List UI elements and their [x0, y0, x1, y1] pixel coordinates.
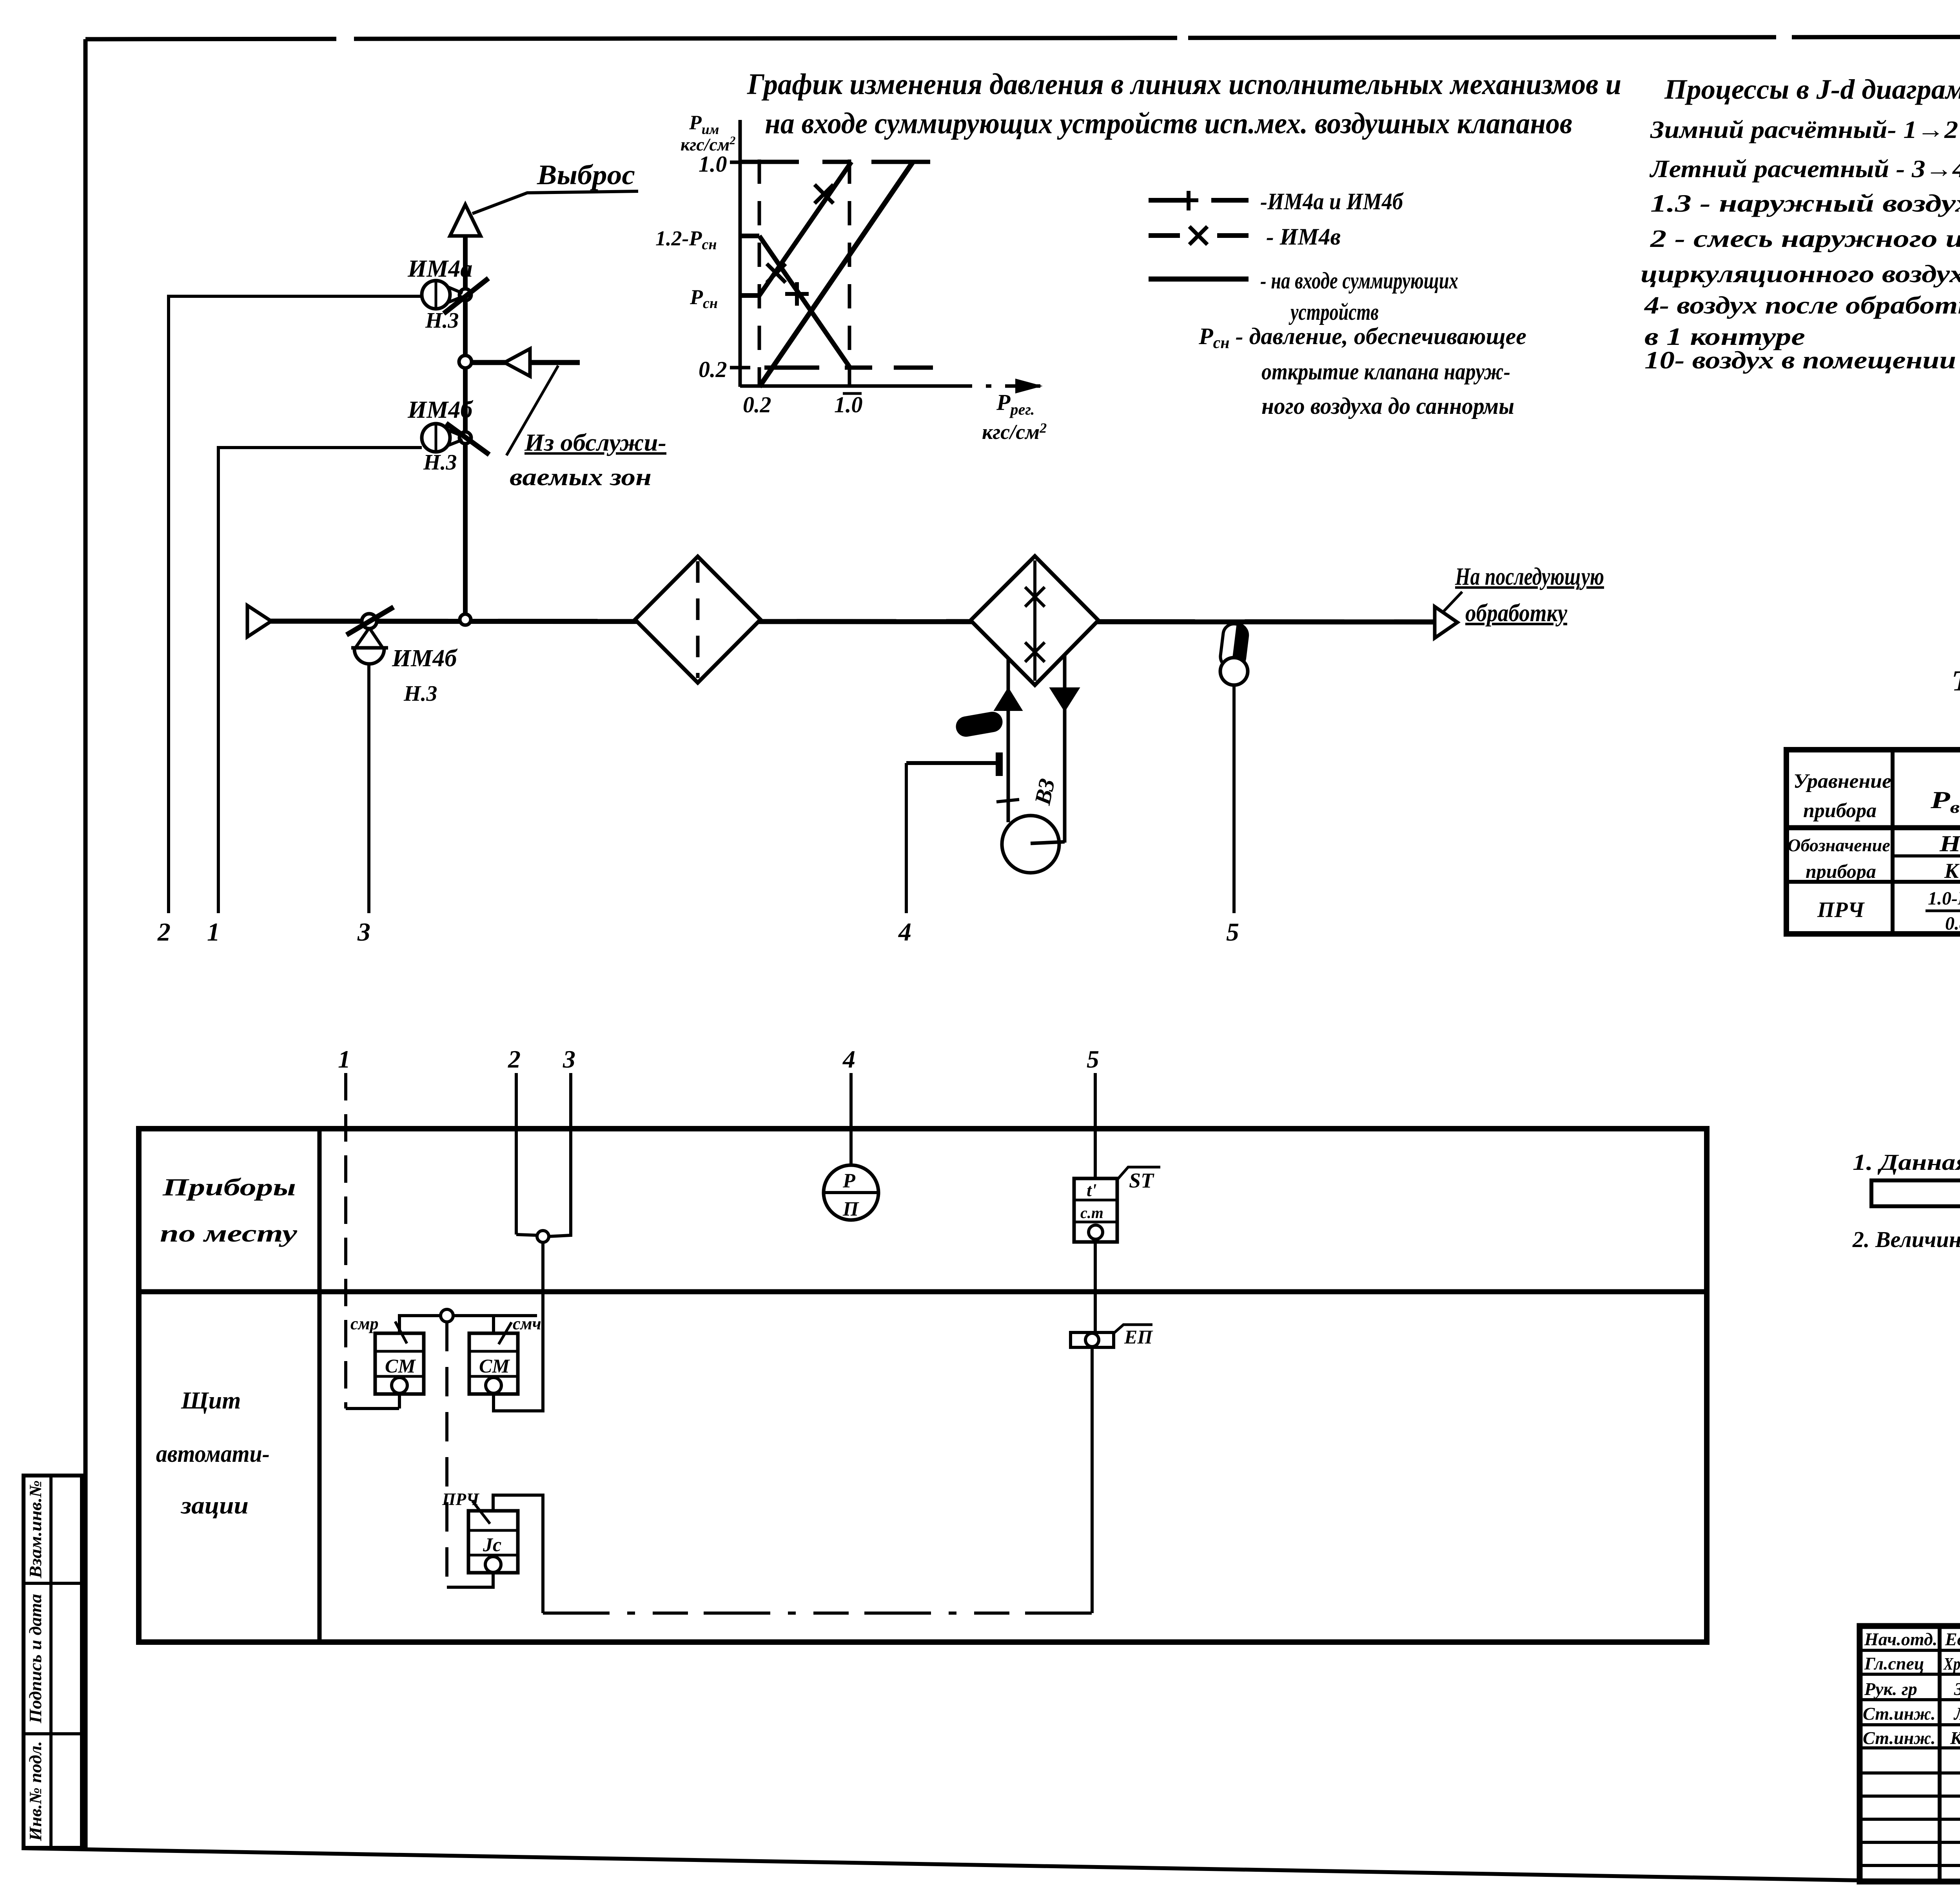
svg-text:Гл.спец: Гл.спец [1864, 1653, 1924, 1673]
svg-text:Рук. гр: Рук. гр [1864, 1679, 1917, 1699]
svg-text:1.0: 1.0 [699, 151, 727, 177]
curve ИМ4в ascending [759, 162, 851, 295]
svg-text:5: 5 [1087, 1045, 1099, 1073]
svg-text:4: 4 [842, 1045, 855, 1073]
duct valve cone down [356, 628, 382, 647]
sheet frame bottom border [22, 1848, 1960, 1883]
svg-text:Процессы в J-d диаграмме: Процессы в J-d диаграмме [1664, 74, 1960, 105]
sig table row lines [1860, 1650, 1960, 1865]
duct valve damper slash [347, 607, 394, 635]
svg-text:2. Величина давления Рсн(: 2. Величина давления Рсн(см. график опре… [1852, 1227, 1960, 1254]
instrument ST box [1074, 1178, 1117, 1242]
recirc inlet line [472, 360, 580, 365]
main duct line [263, 621, 1435, 622]
heat exchanger diamond [971, 556, 1098, 685]
svg-text:3: 3 [357, 918, 370, 946]
valve ИМ4б cone [448, 430, 463, 446]
wire ST to ЕП [1094, 1242, 1097, 1332]
svg-text:с.т: с.т [1080, 1204, 1103, 1222]
exhaust pipe vertical [463, 235, 468, 620]
svg-text:Летний расчетный - 3→4': Летний расчетный - 3→4' [1649, 155, 1960, 183]
svg-text:ИМ4б: ИМ4б [407, 397, 473, 423]
svg-text:2 - смесь наружного и ре-: 2 - смесь наружного и ре- [1650, 225, 1960, 252]
svg-text:Лазаренко: Лазаренко [1953, 1704, 1960, 1724]
label ПРЧ leader [472, 1501, 490, 1524]
svg-text:Р: Р [842, 1170, 856, 1192]
table ПРЧ outer box [1786, 750, 1960, 934]
svg-text:График изменения давления в ли: График изменения давления в линиях испол… [747, 68, 1621, 101]
y-axis [739, 120, 742, 387]
svg-text:ИМ4б: ИМ4б [392, 645, 457, 672]
curve ИМ4а,ИМ4б descending [759, 236, 849, 367]
svg-text:0.2: 0.2 [743, 392, 771, 417]
svg-text:Н.3: Н.3 [423, 450, 457, 475]
Рсн2 level stub [740, 293, 759, 298]
ЕП symbol [1071, 1332, 1114, 1347]
svg-text:обработку: обработку [1465, 599, 1568, 627]
svg-text:ВЗ: ВЗ [1029, 776, 1060, 807]
x marker 1 on ИМ4в [767, 264, 786, 283]
PROCESSTEXT [1641, 74, 1960, 374]
svg-text:СМ: СМ [479, 1355, 510, 1377]
sensor 5 circle [1220, 658, 1248, 685]
svg-text:смч: смч [513, 1314, 541, 1333]
ПРЧ row2 line [1786, 880, 1960, 884]
svg-text:Клименко: Клименко [1950, 1728, 1960, 1748]
svg-text:Ст.инж.: Ст.инж. [1863, 1704, 1936, 1724]
leader slash to Из обслуживаемых зон [506, 366, 558, 455]
x-axis with arrow [740, 384, 937, 388]
panel column divider [318, 1129, 322, 1642]
return water line down-arrow side [1063, 655, 1067, 843]
svg-text:циркуляционного воздуха: циркуляционного воздуха [1641, 260, 1960, 288]
pump circle [1002, 816, 1059, 873]
svg-text:прибора: прибора [1803, 799, 1877, 822]
svg-text:зации: зации [180, 1492, 249, 1519]
svg-text:0.8: 0.8 [1945, 913, 1960, 934]
title block outer [1860, 1626, 1960, 1882]
x marker 2 on ИМ4в [815, 185, 833, 203]
recirc junction node [459, 355, 472, 368]
valve ИМ4а cone [448, 287, 463, 303]
legend item 1 line [1149, 198, 1249, 203]
GRAPH [655, 68, 1621, 444]
label смч leader [499, 1322, 512, 1344]
wire from junction down to СМч [494, 1242, 543, 1411]
valve ИМ4б(нз) on duct: junction [362, 614, 377, 629]
recirc inlet arrow [505, 349, 530, 376]
svg-text:устройств: устройств [1289, 299, 1379, 325]
svg-text:на входе суммирующих устройств: на входе суммирующих устройств исп.мех. … [765, 107, 1572, 140]
PANEL [139, 1045, 1707, 1642]
sheet frame left border [83, 39, 88, 1849]
svg-text:4- воздух после обработки: 4- воздух после обработки [1644, 291, 1960, 319]
svg-text:10- воздух в помещении: 10- воздух в помещении [1644, 346, 1956, 374]
svg-text:СМ: СМ [385, 1355, 416, 1377]
СМр top stub to junction [399, 1316, 537, 1333]
svg-text:- ИМ4в: - ИМ4в [1266, 224, 1341, 250]
junction circle on panel bus [441, 1309, 453, 1322]
box ПРЧ [468, 1511, 518, 1573]
ЕП label leader [1114, 1325, 1152, 1333]
svg-text:Јс: Јс [483, 1534, 501, 1555]
impulse tick on supply line [996, 799, 1019, 802]
TITLEBLOCK [1860, 1584, 1960, 1883]
x mark upper in heat exchanger [1025, 587, 1045, 607]
PIPING_TOPLEFT [157, 159, 1604, 946]
svg-text:кгс/см2: кгс/см2 [982, 420, 1047, 444]
exhaust outlet arrow [450, 205, 481, 236]
dashed horizontal at y=0.2 [764, 366, 933, 370]
ПРЧ header underline [1893, 854, 1960, 857]
valve ИМ4а damper slash [444, 278, 488, 314]
svg-text:На последующую: На последующую [1455, 562, 1604, 590]
T-bar actuator link [906, 753, 999, 775]
wire 3 from duct valve [367, 663, 370, 913]
riser to ЕП bottom [1091, 1347, 1094, 1613]
dashed vertical at x=0.2 [758, 160, 761, 386]
valve ИМ4б damper slash [446, 423, 489, 455]
junction circle wires 2-3 [537, 1231, 549, 1242]
valve ИМ4б junction node [459, 432, 471, 444]
Рсн1 level stub [740, 234, 759, 238]
wire 1 from ИМ4б [218, 448, 422, 913]
svg-text:Обозначение: Обозначение [1788, 835, 1890, 855]
svg-text:t': t' [1087, 1180, 1097, 1200]
svg-text:по месту: по месту [160, 1220, 298, 1247]
svg-text:Нач.отд.: Нач.отд. [1864, 1629, 1937, 1649]
svg-text:ного воздуха до саннормы: ного воздуха до саннормы [1261, 393, 1514, 419]
ST label leader [1117, 1167, 1160, 1180]
svg-text:5: 5 [1226, 918, 1239, 946]
black pill valve on supply [954, 710, 1004, 738]
valve ИМ4а junction node [459, 289, 471, 301]
svg-text:1: 1 [207, 918, 220, 946]
svg-text:Н.3: Н.3 [403, 682, 437, 706]
left attribute table [24, 1476, 82, 1848]
x mark lower in heat exchanger [1025, 642, 1045, 662]
svg-text:Н.3: Н.3 [425, 308, 459, 333]
wires 2-3 join bar [516, 1231, 571, 1236]
dashed drop from junction to ПРЧ [445, 1322, 448, 1587]
svg-text:Уравнение: Уравнение [1793, 770, 1891, 792]
ПРЧ col divider [1891, 750, 1895, 934]
wire 4 down to Р/П [849, 1073, 853, 1165]
svg-text:1. Данная схема применена д: 1. Данная схема применена для следующих … [1853, 1149, 1960, 1175]
svg-text:4: 4 [898, 918, 911, 946]
svg-text:ST: ST [1129, 1169, 1154, 1192]
svg-text:Инв.№ подл.: Инв.№ подл. [26, 1741, 45, 1842]
СМр bottom stub to wire1 [398, 1394, 401, 1409]
duct junction node at exhaust pipe [460, 614, 471, 625]
supply water line up-arrow side [1007, 658, 1010, 822]
thick solid curve на входе суммирующих [759, 162, 913, 387]
wire 5 down [1232, 685, 1236, 913]
svg-text:Из обслужи-: Из обслужи- [524, 430, 666, 456]
svg-text:1.0-Рсн: 1.0-Рсн [1928, 888, 1960, 911]
wire 4 down [905, 763, 908, 913]
svg-text:Евтушенко: Евтушенко [1945, 1629, 1960, 1649]
svg-text:ИМ4а: ИМ4а [407, 256, 472, 282]
wire 3 down [569, 1073, 572, 1235]
svg-text:0.2: 0.2 [699, 357, 727, 382]
svg-text:- на входе суммирующих: - на входе суммирующих [1260, 268, 1458, 294]
svg-text:ПРЧ: ПРЧ [442, 1490, 480, 1509]
svg-text:3: 3 [563, 1045, 575, 1073]
svg-text:Приборы: Приборы [162, 1174, 296, 1201]
svg-text:Подпись и дата: Подпись и дата [26, 1594, 45, 1724]
svg-text:Хростошевский: Хростошевский [1943, 1654, 1960, 1673]
duct outlet arrow [1435, 607, 1457, 638]
dash-dot bus to ЕП riser [543, 1612, 1092, 1615]
leader to На последующую [1442, 592, 1462, 613]
wire 2 from ИМ4а [169, 296, 422, 913]
svg-text:1.0: 1.0 [834, 392, 863, 417]
svg-text:Рсн - давление, обеспечивающее: Рсн - давление, обеспечивающее [1198, 323, 1526, 352]
TABLES [1786, 665, 1960, 984]
svg-text:ваемых зон: ваемых зон [510, 464, 652, 491]
wire 1 dashed down [344, 1073, 347, 1409]
svg-text:ЕП: ЕП [1124, 1326, 1153, 1348]
valve ИМ4б actuator bulb [422, 424, 450, 452]
svg-text:автомати-: автомати- [156, 1441, 270, 1467]
svg-text:ПРЧ: ПРЧ [1817, 898, 1865, 922]
sig table col lines [1938, 1626, 1942, 1882]
valve ИМ4а actuator bulb [422, 281, 450, 309]
svg-text:прибора: прибора [1806, 860, 1876, 882]
svg-text:-ИМ4а и ИМ4б: -ИМ4а и ИМ4б [1260, 189, 1404, 214]
legend item 3 line [1149, 277, 1249, 282]
svg-text:Зингерман: Зингерман [1954, 1679, 1960, 1699]
label смр leader [395, 1322, 407, 1343]
note 1 empty box [1871, 1180, 1960, 1206]
svg-text:1.3 - наружный воздух: 1.3 - наружный воздух [1650, 189, 1960, 217]
panel outer box [139, 1129, 1707, 1642]
dashed vertical at x=1.0 [848, 160, 851, 386]
plus marker on descending curve [785, 282, 809, 306]
svg-text:2: 2 [157, 918, 171, 946]
svg-text:К: К [1944, 859, 1960, 883]
svg-text:1: 1 [338, 1045, 350, 1073]
duct inlet arrow [247, 605, 271, 637]
duct valve actuator dome [351, 648, 388, 664]
NOTES [1852, 1079, 1960, 1254]
filter diamond [635, 557, 760, 683]
svg-text:П: П [842, 1198, 859, 1220]
svg-text:Зимний расчётный- 1→2→4: Зимний расчётный- 1→2→4 [1650, 116, 1960, 143]
СМч top stub to junction [455, 1316, 494, 1333]
svg-text:открытие клапана наруж-: открытие клапана наруж- [1261, 359, 1510, 384]
svg-text:Ст.инж.: Ст.инж. [1863, 1728, 1936, 1748]
sheet frame top border [85, 36, 1960, 39]
svg-text:Щит: Щит [181, 1387, 241, 1414]
svg-text:Взам.инв.№: Взам.инв.№ [26, 1480, 45, 1579]
legend item 2 line [1149, 233, 1249, 238]
svg-text:2: 2 [508, 1045, 521, 1073]
svg-text:смр: смр [350, 1314, 379, 1333]
box СМч [469, 1333, 518, 1394]
ПРЧ row1 line [1786, 825, 1960, 830]
box СМр [375, 1333, 424, 1394]
sensor 5 capsule [1219, 623, 1249, 669]
wire 2 down [515, 1073, 518, 1235]
instrument Р/П circle [824, 1165, 878, 1220]
dashed horizontal at y=1.0 [740, 160, 941, 164]
svg-text:Выброс: Выброс [537, 159, 635, 190]
panel row divider [139, 1289, 1707, 1294]
wire 5 down to ST [1094, 1073, 1097, 1178]
svg-text:Настройка прибора: Настройка прибора [1939, 831, 1960, 856]
svg-text:Таблицы настройки приборов(см.: Таблицы настройки приборов(см. примечани… [1951, 665, 1960, 697]
ПРЧ output wire to ЕП [493, 1495, 543, 1613]
leader to Выброс label [472, 191, 638, 214]
